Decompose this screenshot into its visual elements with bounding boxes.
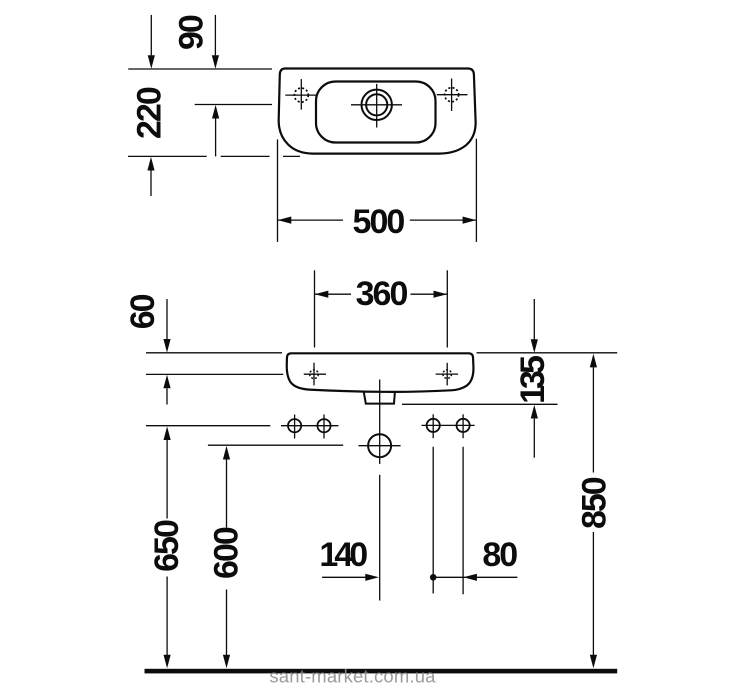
drain trap stub [364,392,395,404]
dim 500: extension line left [277,139,279,242]
svg-text:650: 650 [148,520,186,572]
dim 60 arrowhead up [163,375,170,389]
faucet hole centerline vertical [376,84,378,128]
dim 650 arrowhead up [164,426,171,440]
reference line: tap hole axis [195,104,272,106]
dim 500: extension line right [475,139,477,242]
dim 850 arrowhead up [590,354,597,368]
dim 650: vertical line [166,440,168,519]
fixing hole circle 1 [288,419,301,432]
dim 135: upper arrow tail [533,299,535,340]
dim 600 arrowhead up [223,446,230,460]
left tap hole crosshair (dashed circle) [294,88,308,102]
svg-text:220: 220 [131,87,169,139]
svg-text:140: 140 [319,536,367,574]
dim 60 arrows [166,299,168,339]
dim 220 arrowhead up (front edge) [147,157,154,171]
60-offset line [146,373,283,375]
dim 360 arrowhead left [315,291,329,298]
right tap hole crosshair (dashed circle) [445,88,459,102]
fixing holes reference line [146,425,270,427]
dim 90 arrowhead down left [148,55,155,69]
svg-text:135: 135 [514,356,552,404]
fixing hole circle 2 [317,419,330,432]
dim 80 reference dot [430,574,437,581]
dim 220: lower arrow tail [150,171,152,197]
faucet hole outer circle [362,90,392,120]
svg-text:80: 80 [482,536,517,574]
dim 135: lower reference line [402,403,558,405]
dim 360 arrowhead right [434,291,448,298]
faucet hole centerline horizontal [351,104,402,106]
reference line: back edge [128,68,272,70]
dim 90: lower arrow tail [215,118,217,156]
arrowheads [147,55,597,668]
dim 500 arrowhead left [278,217,292,224]
siphon outlet horizontal tick [359,445,401,447]
dim 60 arrowhead down [163,339,170,353]
outlet level line [208,444,343,446]
dim 90: upper arrow right [214,15,216,56]
fixing hole circle 4 [457,419,470,432]
dim 135: lower arrow tail [533,419,535,458]
svg-text:500: 500 [353,203,405,241]
dim 80: dimension line [433,576,517,578]
dim 360: dimension line [315,293,352,295]
svg-text:850: 850 [576,477,614,529]
basin inner bowl (top view) [316,82,436,143]
extension below fixing hole 3 [432,447,434,594]
svg-text:360: 360 [356,275,408,313]
svg-text:90: 90 [173,15,211,50]
dim 140: dimension line [322,576,366,578]
washbasin front outline [287,353,474,391]
extension below fixing hole 4 [462,447,464,595]
dim 850 arrowhead down [590,655,597,669]
basin outer outline (top view) [279,69,476,154]
svg-text:60: 60 [124,294,162,329]
dim 850: vertical line [592,367,594,472]
left fixing crosshair (front view) [310,370,319,379]
rim level line left [146,352,282,354]
fixing hole circle 3 [427,419,440,432]
dim 500: dimension line [278,219,344,221]
dim 500 arrowhead right [463,217,477,224]
dim 90 arrowhead up (tap axis) [212,105,219,119]
dim 360: extension line right [446,270,448,347]
dim 135 arrowhead up [531,405,538,419]
right fixing crosshair (front view) [443,370,452,379]
reference line: front edge (dash-dot) [128,155,207,157]
dimension labels [124,15,614,579]
dim 140 arrowhead right [365,574,379,581]
dim 90 arrowhead down right [212,55,219,69]
dim 360: extension line left [314,270,316,347]
dim 80 arrowhead left [463,574,477,581]
dim 600: vertical line [226,459,228,527]
rim level line right [477,352,618,354]
dim 135 arrowhead down [531,339,538,353]
siphon outlet circle [368,434,391,457]
drain centerline (vertical) [379,380,381,464]
dim 600 arrowhead down [223,655,230,669]
faucet hole inner circle [366,94,387,115]
dim 650 arrowhead down [164,655,171,669]
dim 90: upper arrow left (shared with 220) [150,15,152,56]
floor line [145,669,618,674]
svg-text:sant-market.com.ua: sant-market.com.ua [269,666,436,687]
svg-text:600: 600 [208,527,246,579]
